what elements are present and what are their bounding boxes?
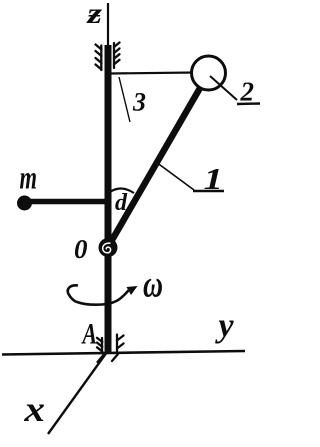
svg-text:ω: ω <box>143 264 163 306</box>
svg-text:2: 2 <box>240 77 255 107</box>
svg-text:1: 1 <box>204 161 224 196</box>
svg-text:ƶ: ƶ <box>86 0 102 30</box>
svg-text:d: d <box>115 190 128 216</box>
svg-text:y: y <box>215 308 235 345</box>
svg-text:x: x <box>23 389 45 429</box>
svg-text:0: 0 <box>74 234 88 264</box>
svg-text:m: m <box>20 161 38 197</box>
svg-text:3: 3 <box>132 88 146 117</box>
svg-text:A: A <box>81 318 97 351</box>
